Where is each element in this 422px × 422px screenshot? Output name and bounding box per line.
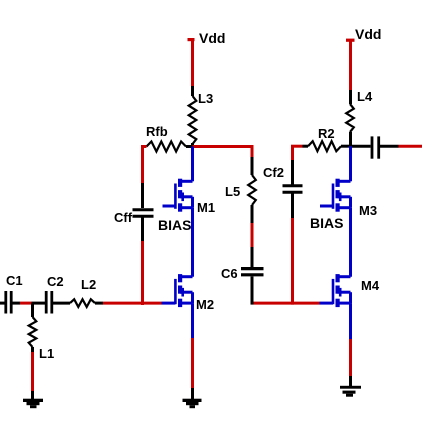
wire feedback left vertical xyxy=(141,145,144,183)
wire input stub xyxy=(0,302,5,305)
ground right xyxy=(340,386,361,389)
svg-text:M1: M1 xyxy=(197,200,215,215)
capacitor Cout / output branch xyxy=(351,145,371,148)
resistor R2 xyxy=(308,141,341,151)
wire M1 source to M2 drain xyxy=(191,208,194,277)
ground middle xyxy=(183,399,202,402)
inductor L4 xyxy=(346,104,354,132)
inductor L2 xyxy=(70,299,95,307)
transistor M3 xyxy=(336,180,351,183)
capacitor C2 xyxy=(45,291,48,314)
inductor L3 xyxy=(189,96,197,144)
svg-text:L4: L4 xyxy=(357,89,373,104)
wire M3 source to M4 drain xyxy=(349,208,352,277)
wire M3 drain xyxy=(349,146,352,181)
capacitor Cff xyxy=(133,208,154,211)
wire M2 source down xyxy=(191,303,194,338)
wire M4 source down xyxy=(349,303,352,339)
wire drain node to C6 branch (red) xyxy=(193,145,253,148)
wire Vdd1 down xyxy=(191,40,194,87)
svg-text:Rfb: Rfb xyxy=(146,124,168,139)
transistor M4 xyxy=(336,275,351,278)
wire C2 to L2 xyxy=(53,302,70,305)
wire M3 gate stub (BIAS) xyxy=(320,205,333,208)
svg-text:C1: C1 xyxy=(6,273,23,288)
inductor L5 xyxy=(248,175,256,205)
svg-text:C6: C6 xyxy=(221,266,238,281)
wire Vdd2 down xyxy=(349,40,352,90)
svg-text:R2: R2 xyxy=(318,126,335,141)
capacitor Cf2 xyxy=(283,184,303,187)
svg-text:M4: M4 xyxy=(361,278,380,293)
power Vdd right xyxy=(346,39,355,42)
wire M1 drain xyxy=(191,147,194,182)
ground left xyxy=(23,399,43,402)
wire Cf2 branch vertical xyxy=(291,145,294,160)
wire M1 gate stub (BIAS) xyxy=(163,205,176,208)
svg-text:L1: L1 xyxy=(39,346,54,361)
svg-text:M2: M2 xyxy=(196,297,214,312)
svg-text:BIAS: BIAS xyxy=(310,215,343,231)
transistor M2 xyxy=(179,275,193,278)
wire C6 branch top xyxy=(251,145,254,157)
svg-text:Vdd: Vdd xyxy=(199,30,225,46)
resistor Rfb xyxy=(147,142,187,152)
svg-text:Vdd: Vdd xyxy=(355,26,381,42)
transistor M1 xyxy=(179,180,193,183)
node L1 junction / inductor L1 xyxy=(31,303,34,317)
svg-text:Cff: Cff xyxy=(114,210,133,225)
wire M4 gate lead xyxy=(320,302,334,305)
svg-text:M3: M3 xyxy=(359,203,377,218)
wire M2 gate lead xyxy=(162,302,176,305)
svg-text:L5: L5 xyxy=(225,184,240,199)
capacitor C6 xyxy=(241,267,264,270)
power Vdd left xyxy=(188,38,195,41)
wire output (red) xyxy=(399,145,422,148)
svg-text:C2: C2 xyxy=(47,274,64,289)
svg-text:BIAS: BIAS xyxy=(158,217,191,233)
wire C6 to M4 gate (red) xyxy=(254,302,320,305)
wire L2 to gate node (red) xyxy=(95,302,103,305)
svg-text:L2: L2 xyxy=(81,277,96,292)
svg-text:Cf2: Cf2 xyxy=(263,165,284,180)
svg-text:L3: L3 xyxy=(198,91,213,106)
wire C1 to node xyxy=(13,302,21,305)
capacitor C1 xyxy=(4,291,7,314)
